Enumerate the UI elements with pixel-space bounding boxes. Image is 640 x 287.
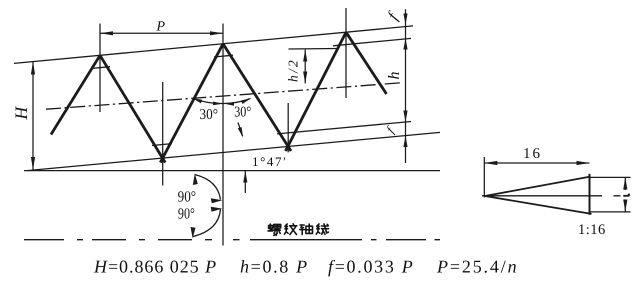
- svg-text:90°: 90°: [178, 206, 195, 223]
- taper figure: left extension line: [483, 157, 485, 198]
- flank: peak2 right to valley2: [223, 44, 291, 151]
- vertical extension line peak 1: [99, 24, 101, 113]
- arrow f bottom (points up to sharp root line): [403, 136, 407, 147]
- sharp crest (tip) envelope line: [14, 26, 413, 64]
- 30° angle arc right: [224, 99, 251, 104]
- arrow 16 left: [484, 161, 497, 165]
- svg-text:16: 16: [523, 146, 542, 162]
- svg-text:30°: 30°: [234, 105, 251, 121]
- flank: peak1 right to valley1: [100, 55, 165, 162]
- root truncation line right of valley 2: [277, 122, 411, 134]
- svg-text:30°: 30°: [200, 107, 219, 123]
- flank: peak1 left: [51, 55, 100, 134]
- 90° leader arc upper: [195, 175, 221, 200]
- arrow 30° arc mid-left: [213, 102, 223, 106]
- svg-text:H=0.866 025 P: H=0.866 025 P: [93, 257, 217, 277]
- svg-text:P=25.4/n: P=25.4/n: [436, 257, 518, 277]
- svg-text:1°47′: 1°47′: [252, 154, 288, 169]
- crest truncation flat at peak 2: [214, 55, 233, 57]
- arrow P right: [210, 31, 223, 35]
- arrow h/2 bottom: [303, 72, 307, 84]
- svg-text:h/2: h/2: [286, 58, 301, 82]
- h/2 dimension line: [304, 50, 306, 84]
- taper figure: bottom extension line: [590, 211, 631, 213]
- P dimension line: [100, 32, 223, 34]
- label 螺纹轴线: [268, 224, 329, 236]
- arrow 30° arc far-left: [193, 98, 203, 103]
- vertical extension line peak 3: [345, 8, 347, 98]
- vertical extension line valley 2: [287, 103, 289, 152]
- arrow 90° lower arc right (points right to vertical line): [211, 207, 223, 212]
- arrow 1°47' upper (slanted, points down-right): [238, 127, 243, 138]
- arrow P left: [100, 31, 113, 35]
- arrow H bottom: [31, 157, 35, 170]
- label 1 (rotated) on right dimension: [623, 194, 629, 196]
- sharp root envelope line: [27, 132, 440, 170]
- arrow 16 right: [577, 161, 590, 165]
- H dimension line: [32, 62, 34, 171]
- pitch line (dash-dot): [46, 83, 400, 109]
- 30° angle arc left: [193, 98, 223, 103]
- flank: peak2 left to valley1: [160, 44, 223, 163]
- taper figure: cone top edge: [485, 177, 590, 196]
- svg-text:f=0.033 P: f=0.033 P: [328, 257, 414, 277]
- arrow 1°47' lower (points up): [243, 171, 247, 183]
- svg-text:h: h: [386, 72, 403, 80]
- crest truncation flat at peak 1: [91, 67, 110, 69]
- svg-text:90°: 90°: [178, 189, 197, 206]
- arrow h bottom (points down to root trunc line): [403, 111, 407, 123]
- svg-text:P: P: [156, 20, 166, 35]
- taper figure: right dimension line for 1: [624, 177, 626, 190]
- arrow right fig bottom (points down): [623, 200, 627, 212]
- crest truncation line at peak 3: [333, 38, 411, 45]
- vertical extension line valley 1: [162, 82, 164, 186]
- f h f dimension line: [405, 9, 407, 163]
- flank: peak3 left to valley2: [286, 32, 347, 151]
- 1°47' dimension line lower: [244, 171, 246, 193]
- flank: peak3 right: [346, 32, 387, 94]
- h/2 reference line: [289, 48, 338, 51]
- arrow f top upper (points down to tip line): [403, 14, 407, 25]
- arrow 90° upper arc right (points right to vertical line): [211, 198, 223, 203]
- 1°47' dimension leader upper (slanted): [238, 123, 243, 137]
- taper figure: top extension line: [590, 176, 631, 178]
- arrow 30° arc far-right: [241, 99, 251, 105]
- arrow h/2 top: [303, 50, 307, 62]
- taper figure: centre line dash-dot: [482, 195, 621, 197]
- arrow right fig top (points up): [623, 177, 627, 189]
- horizontal reference line: [24, 170, 440, 172]
- taper figure: 16 dimension line: [484, 162, 589, 164]
- arrow f top lower (points up to crest line): [403, 38, 407, 49]
- arrowheads: [31, 14, 628, 239]
- root truncation flat at valley 1: [152, 144, 172, 146]
- svg-text:1:16: 1:16: [578, 222, 606, 238]
- taper figure: cone bottom edge: [485, 196, 592, 214]
- arrow 90° upper arc top (points up to reference line): [193, 174, 198, 186]
- thread axis line (dash-dot): [24, 239, 440, 241]
- arrow H top: [31, 62, 35, 75]
- vertical line through peak 2 (perpendicular construction): [222, 24, 224, 246]
- taper figure: base vertical line: [589, 174, 591, 215]
- svg-text:h=0.8 P: h=0.8 P: [240, 257, 309, 277]
- arrow 30° arc mid-right: [225, 102, 235, 106]
- 90° leader arc lower: [193, 209, 221, 237]
- svg-text:H: H: [11, 106, 31, 121]
- arrow 90° lower arc bottom (points down to axis line): [191, 227, 196, 239]
